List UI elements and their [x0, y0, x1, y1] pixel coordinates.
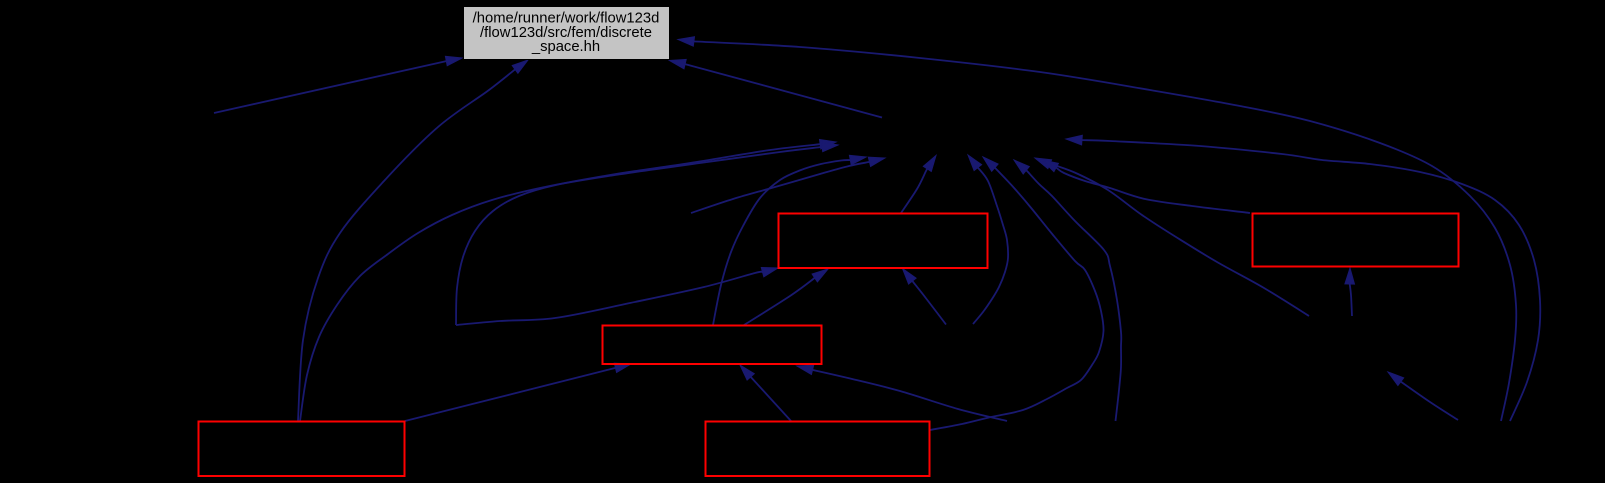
edge E->N1 — [930, 157, 1104, 430]
edge D->C — [405, 363, 631, 421]
edge M1->N1 — [1014, 160, 1121, 421]
edge N1->G — [670, 59, 883, 117]
edge L1->G — [214, 56, 462, 113]
edge N3->A — [903, 269, 947, 325]
edge A->N1 — [901, 156, 936, 214]
edge D->G — [298, 60, 528, 421]
edge ML->N1 — [456, 142, 838, 325]
node G: /home/runner/work/flow123d/flow123d/src/fem/discrete_space.hh (grey root) — [464, 7, 670, 60]
edge BR->G — [678, 37, 1516, 421]
edge C->A — [744, 269, 828, 325]
edge M1->C — [797, 365, 1007, 421]
edge N3->N1 — [968, 155, 1008, 324]
edge BR->N1 — [1066, 135, 1540, 421]
edge E->C — [740, 365, 791, 421]
node A (red box) — [779, 214, 988, 269]
edge D->N1 — [300, 140, 836, 422]
edge N2->B — [1345, 268, 1355, 316]
node D (red box) — [199, 422, 405, 477]
node B (red box) — [1253, 214, 1459, 267]
edge C->N1 — [713, 155, 866, 325]
node E (red box) — [706, 422, 930, 477]
node C (red box) — [603, 326, 822, 365]
edge ML->A — [456, 268, 778, 326]
edge N2->N1 — [1035, 158, 1309, 316]
edge B->N1 — [1042, 160, 1250, 213]
edge BR->N2 — [1388, 372, 1458, 420]
edge A0->N1 — [691, 157, 885, 213]
